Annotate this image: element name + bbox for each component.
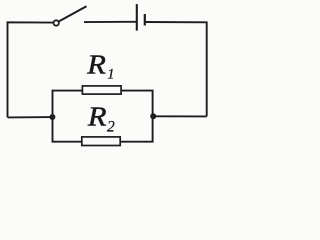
svg-text:R: R: [86, 50, 106, 80]
svg-text:2: 2: [107, 118, 115, 135]
svg-text:R: R: [87, 102, 107, 132]
svg-text:1: 1: [107, 67, 114, 83]
